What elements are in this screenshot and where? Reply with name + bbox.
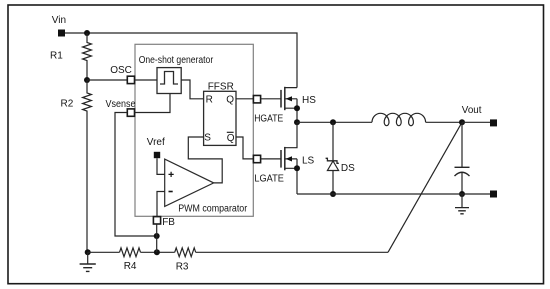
junction DS bottom — [330, 191, 336, 197]
svg-text:Vout: Vout — [462, 105, 482, 116]
junction switch node — [294, 119, 300, 125]
svg-text:DS: DS — [341, 163, 355, 174]
wire Vin to HS drain — [65, 33, 297, 88]
svg-text:R: R — [206, 94, 213, 105]
pin OSC — [110, 65, 134, 84]
pin LGATE — [253, 155, 284, 184]
resistor R2 — [61, 80, 92, 252]
op-amp PWM comparator — [165, 159, 248, 215]
capacitor Cout — [455, 122, 470, 194]
flip-flop FFSR — [204, 82, 236, 146]
junction Vsense/FB — [154, 233, 160, 239]
wire Vsense pin to one-shot bottom — [135, 94, 171, 113]
svg-text:S: S — [204, 132, 211, 143]
svg-text:HGATE: HGATE — [254, 113, 283, 124]
wire feedback diagonal to Vout — [388, 122, 462, 252]
wire bottom rail left — [88, 251, 120, 253]
svg-text:Q: Q — [227, 133, 235, 144]
junction LS source — [294, 165, 300, 171]
junction Vout — [459, 119, 465, 125]
inductor — [372, 113, 426, 125]
junction FB/R4/R3 — [154, 249, 160, 255]
junction Vin/R1 — [84, 30, 90, 36]
one-shot generator — [139, 55, 214, 94]
pin HGATE — [253, 96, 283, 125]
junction Cout/ground rail — [459, 191, 465, 197]
svg-text:R3: R3 — [176, 262, 189, 273]
wire Vsense external to FB node — [115, 113, 157, 237]
wire comparator output to S input — [188, 137, 222, 183]
svg-text:Vin: Vin — [52, 15, 66, 26]
svg-text:FB: FB — [162, 217, 175, 228]
node Vin — [52, 15, 66, 36]
wire HGATE pin to HS gate — [261, 98, 281, 100]
svg-text:R2: R2 — [61, 99, 74, 110]
diode DS — [326, 122, 356, 194]
pin Vsense — [106, 99, 136, 116]
wire one-shot output to R input — [181, 80, 203, 99]
wire LGATE pin to LS gate — [261, 158, 281, 160]
svg-text:LS: LS — [302, 156, 315, 167]
wire minus input to FB — [157, 192, 165, 217]
wire OSC pin to one-shot — [135, 79, 158, 81]
svg-text:HS: HS — [302, 95, 316, 106]
svg-text:Q: Q — [226, 94, 234, 105]
ground output — [455, 194, 469, 214]
pin FB — [153, 217, 175, 229]
wire ground rail — [297, 193, 490, 195]
resistor R4 — [120, 248, 141, 272]
svg-text:R1: R1 — [50, 51, 63, 62]
wire OSC node to OSC pin — [87, 79, 127, 81]
svg-text:PWM comparator: PWM comparator — [178, 204, 248, 215]
wire Q to HGATE pin — [236, 98, 253, 100]
node GND terminal — [490, 191, 497, 198]
wire FB pin to divider junction — [156, 224, 158, 252]
wire switch node to inductor — [297, 121, 372, 123]
svg-text:OSC: OSC — [110, 65, 132, 76]
svg-text:Vref: Vref — [147, 137, 165, 148]
wire R4 to R3 — [141, 251, 175, 253]
junction DS top — [330, 119, 336, 125]
junction HS source — [294, 105, 300, 111]
resistor R3 — [175, 248, 196, 273]
IC block — [135, 44, 253, 216]
wire Qbar to LGATE pin — [236, 137, 253, 159]
svg-text:LGATE: LGATE — [254, 173, 284, 184]
junction R1/R2/OSC — [84, 77, 90, 83]
resistor R1 — [50, 33, 91, 80]
node Vref — [147, 137, 165, 174]
node Vout — [462, 105, 497, 126]
svg-text:Vsense: Vsense — [106, 99, 136, 110]
transistor LS — [281, 122, 315, 194]
junction bottom-left rail — [85, 249, 91, 255]
svg-text:R4: R4 — [124, 261, 137, 272]
svg-text:One-shot generator: One-shot generator — [139, 55, 214, 66]
transistor HS — [281, 87, 316, 123]
wire inductor to Vout — [426, 121, 462, 123]
ground left — [80, 252, 96, 271]
wire R3 to feedback corner — [196, 251, 388, 253]
svg-text:FFSR: FFSR — [208, 82, 234, 93]
